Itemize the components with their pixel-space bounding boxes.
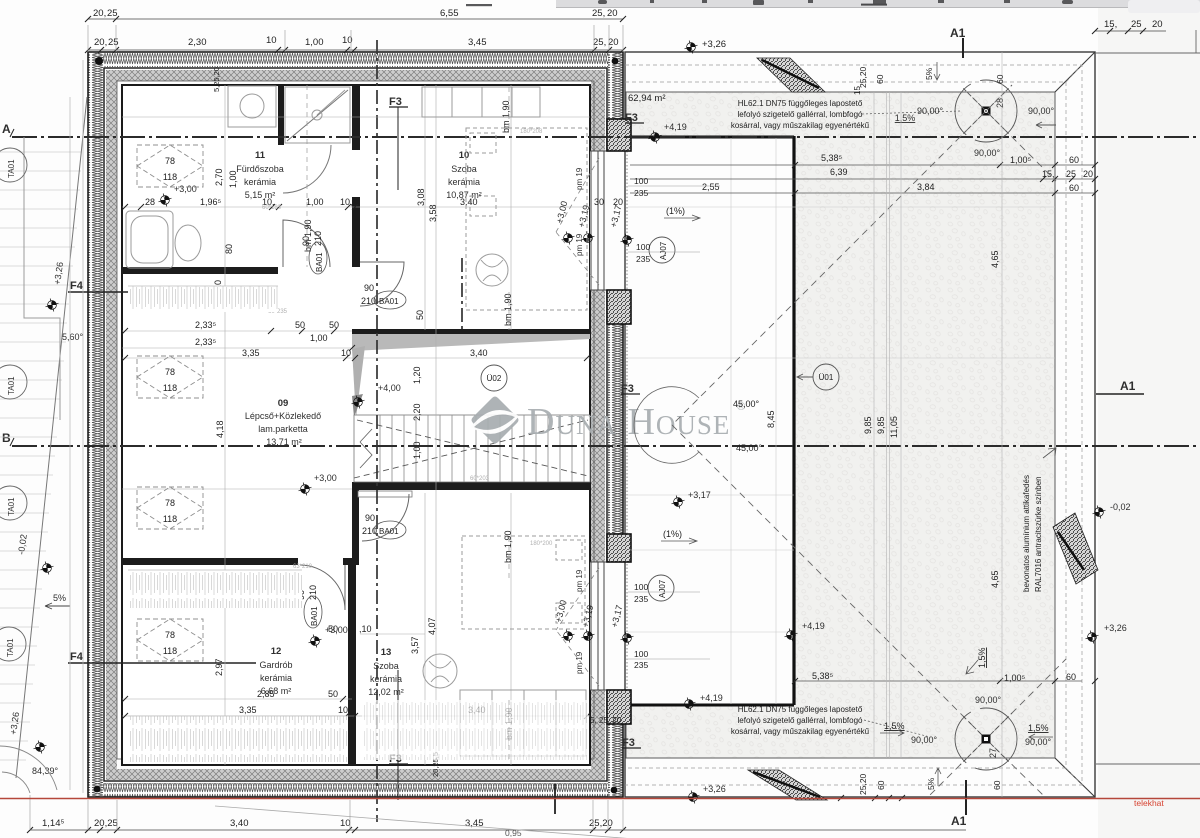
svg-text:2,33⁵: 2,33⁵: [195, 320, 217, 330]
svg-text:10: 10: [459, 150, 470, 161]
svg-text:HL62.1 DN75 függőleges laposte: HL62.1 DN75 függőleges lapostető: [738, 705, 863, 714]
room13 bed dashed: [462, 536, 585, 629]
svg-text:5,38⁵: 5,38⁵: [812, 671, 834, 681]
rotated dim labels: [212, 67, 622, 777]
svg-text:50: 50: [295, 320, 305, 330]
band rotated labels top: [853, 66, 1005, 95]
svg-text:4,18: 4,18: [215, 420, 225, 438]
door D1 bathroom leaf+arc: [283, 220, 330, 267]
svg-text:80: 80: [224, 244, 234, 254]
svg-text:BA01: BA01: [379, 297, 399, 306]
svg-text:235: 235: [636, 254, 650, 264]
wall under stairs W4: [352, 482, 590, 490]
wall W1 lower piece: [352, 197, 360, 262]
svg-text:25: 25: [1066, 169, 1076, 179]
white void rectangle over lower-storey footprint: [624, 136, 794, 706]
svg-text:+3,17: +3,17: [688, 490, 711, 500]
svg-text:1,00: 1,00: [306, 197, 324, 207]
svg-text:180*208: 180*208: [520, 129, 543, 135]
room10 wardrobe: [422, 87, 540, 117]
svg-text:Szoba: Szoba: [373, 661, 399, 671]
svg-text:100: 100: [634, 649, 648, 659]
svg-text:13: 13: [381, 647, 392, 658]
svg-text:118: 118: [163, 514, 177, 524]
svg-text:60: 60: [992, 780, 1002, 790]
faint grid continuation through roof: [628, 138, 1055, 704]
svg-text:Lépcső+Közlekedő: Lépcső+Közlekedő: [245, 411, 321, 421]
svg-text:,10: ,10: [359, 624, 372, 634]
svg-text:60: 60: [995, 74, 1005, 84]
svg-text:100: 100: [634, 582, 648, 592]
neighbour outline: [24, 137, 60, 420]
dashed bm lines: [307, 85, 509, 762]
svg-text:90,00°: 90,00°: [917, 106, 944, 116]
rotated totals mid: [766, 250, 1000, 588]
vertical dashed centreline x=377: [376, 40, 378, 822]
svg-text:telekhat: telekhat: [1134, 798, 1164, 808]
svg-text:A1: A1: [951, 814, 967, 828]
svg-text:50: 50: [328, 689, 338, 699]
sill blocks room 10: [607, 119, 631, 151]
svg-text:20,25: 20,25: [94, 818, 118, 829]
svg-text:180*200: 180*200: [530, 541, 553, 547]
svg-text:30: 30: [594, 197, 604, 207]
+4,19 top flag: [649, 131, 662, 144]
svg-text:3,58: 3,58: [428, 204, 438, 222]
svg-text:9,85: 9,85: [863, 416, 873, 434]
terrace grade lines: [0, 152, 82, 760]
boundary vertical dim lines near wall: [70, 60, 83, 793]
svg-text:2,30: 2,30: [188, 37, 207, 48]
opening room 13: [590, 562, 624, 690]
browser toolbar remnant top: [466, 0, 1200, 13]
svg-text:118: 118: [163, 646, 177, 656]
extension lines down from wall: [30, 795, 623, 830]
svg-text:20: 20: [608, 37, 619, 48]
parapet mitre bottom-right: [1055, 758, 1095, 797]
svg-text:F3: F3: [622, 737, 635, 749]
parapet mitre top-right: [1055, 52, 1095, 92]
tiny size labels: [262, 129, 553, 570]
top drain: [955, 80, 1017, 142]
svg-text:1,00: 1,00: [412, 441, 422, 459]
svg-text:kosárral, vagy műszakilag egye: kosárral, vagy műszakilag egyenértékű: [731, 727, 870, 736]
room13 wardrobe: [460, 690, 586, 756]
svg-text:10: 10: [341, 348, 351, 358]
circles U02: [481, 365, 507, 391]
svg-text:20: 20: [1152, 19, 1163, 30]
svg-text:63*210: 63*210: [293, 564, 313, 570]
svg-text:B: B: [2, 431, 11, 445]
extension ticks from wall top: [88, 25, 623, 52]
room13 plant: [423, 654, 457, 688]
svg-text:A1: A1: [1120, 379, 1136, 393]
svg-text:78: 78: [165, 630, 175, 640]
svg-text:3,45: 3,45: [465, 818, 484, 829]
svg-text:2,55: 2,55: [702, 182, 720, 192]
svg-text:6,55: 6,55: [440, 8, 459, 19]
svg-text:09: 09: [278, 398, 289, 409]
thick black terrace outline: [627, 136, 794, 139]
svg-text:45,00°: 45,00°: [736, 443, 763, 453]
svg-text:+3,26: +3,26: [702, 39, 726, 50]
svg-text:100: 100: [634, 176, 648, 186]
svg-text:6,39: 6,39: [830, 167, 848, 177]
svg-text:TA01: TA01: [7, 376, 16, 395]
svg-text:10: 10: [340, 818, 351, 829]
svg-text:+4,19: +4,19: [802, 621, 825, 631]
svg-text:10,: 10,: [340, 197, 353, 207]
svg-text:10: 10: [266, 35, 277, 46]
svg-text:2,33⁵: 2,33⁵: [195, 337, 217, 347]
svg-text:1,20: 1,20: [412, 366, 422, 384]
svg-text:1,00⁵: 1,00⁵: [1010, 155, 1032, 165]
svg-text:3,35: 3,35: [242, 348, 260, 358]
svg-text:15: 15: [853, 86, 862, 95]
svg-text:25: 25: [108, 37, 119, 48]
parapet dashed offset lines: [625, 65, 1082, 785]
svg-text:25: 25: [107, 8, 118, 19]
svg-text:1,00⁵: 1,00⁵: [1004, 673, 1026, 683]
axis A horizontal: [12, 136, 1196, 138]
svg-text:10: 10: [338, 705, 348, 715]
axis B horizontal: [12, 445, 1196, 447]
(1%) labels: [661, 206, 700, 544]
svg-text:1,5%: 1,5%: [884, 721, 905, 731]
svg-text:1,5%: 1,5%: [895, 113, 916, 123]
svg-text:bevonatos alumínium attikafedé: bevonatos alumínium attikafedés: [1022, 475, 1031, 592]
svg-text:12: 12: [271, 646, 282, 657]
svg-text:3,40: 3,40: [230, 818, 249, 829]
svg-text:13,71 m²: 13,71 m²: [266, 437, 302, 447]
svg-text:Ü02: Ü02: [487, 374, 502, 383]
corner survey dots: [95, 57, 103, 65]
stipple field: [626, 92, 1055, 758]
svg-text:lefolyó szigetelő gallérral, l: lefolyó szigetelő gallérral, lombfogó: [738, 110, 864, 119]
svg-text:4,65: 4,65: [990, 250, 1000, 268]
svg-text:+3,00: +3,00: [325, 625, 348, 635]
HL note top: [731, 99, 870, 130]
svg-text:60: 60: [1066, 672, 1076, 682]
svg-text:TA01: TA01: [6, 638, 15, 657]
svg-text:210: 210: [308, 585, 318, 600]
svg-text:(1%): (1%): [663, 529, 682, 539]
svg-text:90,00°: 90,00°: [1025, 737, 1052, 747]
svg-text:10,87 m²: 10,87 m²: [446, 190, 482, 200]
svg-text:78: 78: [165, 156, 175, 166]
+4,19 labels: [785, 629, 798, 642]
svg-text:3,08: 3,08: [416, 188, 426, 206]
U01 circle + leader: [813, 364, 839, 390]
svg-text:F3: F3: [389, 96, 402, 108]
svg-text:60: 60: [1069, 155, 1079, 165]
svg-text:235: 235: [634, 594, 648, 604]
svg-text:90: 90: [364, 283, 374, 293]
svg-text:28: 28: [145, 197, 155, 207]
row 1 clipped: [88, 18, 623, 20]
svg-text:60*203: 60*203: [470, 476, 490, 482]
svg-text:F4: F4: [70, 651, 84, 663]
svg-text:1,14⁵: 1,14⁵: [42, 818, 64, 829]
svg-text:28: 28: [995, 98, 1005, 108]
svg-text:AJ07: AJ07: [659, 241, 668, 260]
svg-text:2,97: 2,97: [214, 658, 224, 676]
svg-text:4,07: 4,07: [427, 617, 437, 635]
svg-text:Gardrób: Gardrób: [259, 660, 292, 670]
1,5% rotated arrows: [880, 647, 1053, 740]
line between insulation and wall: [104, 68, 607, 781]
svg-text:5,15 m²: 5,15 m²: [245, 190, 276, 200]
svg-text:25,: 25,: [593, 37, 606, 48]
crosshatched wall core: [106, 70, 605, 81]
-0,02 right: [1093, 506, 1106, 519]
svg-text:1,5%: 1,5%: [1028, 723, 1049, 733]
terrace door swing dashes: [556, 158, 599, 686]
svg-text:4,65: 4,65: [990, 570, 1000, 588]
short section line bottom: [554, 784, 556, 814]
svg-text:F3: F3: [621, 383, 634, 395]
insulation dotted face left of void: [626, 137, 628, 704]
45 degree arcs: [634, 387, 699, 425]
svg-text:60*183: 60*183: [262, 205, 282, 211]
wall bath/room10 W1 upper: [352, 85, 360, 150]
top-right area lines: [1095, 30, 1200, 764]
+3,26 bottom centre: [687, 791, 700, 804]
bathtub: [126, 211, 173, 268]
svg-text:lam.parketta: lam.parketta: [258, 424, 308, 434]
interior dim labels row bath y202: [145, 197, 623, 715]
AJ07 circles: [649, 237, 675, 263]
sill blocks room 13: [607, 534, 631, 562]
svg-text:pm 19: pm 19: [575, 167, 584, 190]
insulation ring (zigzag): [88, 53, 623, 67]
svg-text:50: 50: [329, 320, 339, 330]
svg-text:20: 20: [1083, 169, 1093, 179]
TA01 circles: [0, 148, 27, 661]
svg-text:Fürdőszoba: Fürdőszoba: [236, 164, 284, 174]
shower curved screen: [283, 145, 331, 193]
svg-text:+4,19: +4,19: [700, 693, 723, 703]
svg-text:BA01: BA01: [310, 606, 319, 626]
corner arcs: [2, 772, 30, 793]
svg-text:90: 90: [365, 513, 375, 523]
svg-text:78: 78: [165, 498, 175, 508]
wall room12/room13 W6: [348, 558, 356, 765]
svg-text:HL62.1 DN75 függőleges laposte: HL62.1 DN75 függőleges lapostető: [738, 99, 863, 108]
door D4 room12 leaf+arc: [300, 565, 345, 610]
svg-text:5%: 5%: [926, 777, 936, 790]
door D3 room13 leaf+arc: [358, 491, 412, 497]
room10 bed dashed: [466, 128, 587, 310]
svg-text:F3: F3: [625, 112, 638, 124]
svg-text:5,25,20: 5,25,20: [212, 67, 221, 92]
wall inner thin line: [117, 81, 594, 759]
svg-text:Duna House: Duna House: [527, 401, 730, 443]
svg-text:1,00: 1,00: [305, 37, 324, 48]
bathroom south wall W2: [122, 267, 278, 274]
svg-text:1,5%: 1,5%: [977, 647, 987, 668]
svg-text:118: 118: [163, 383, 177, 393]
svg-text:1,96⁵: 1,96⁵: [200, 197, 222, 207]
svg-text:+3,00: +3,00: [314, 473, 337, 483]
washbasin: [175, 225, 201, 261]
svg-text:15,: 15,: [1104, 19, 1117, 30]
svg-text:-0,02: -0,02: [1110, 502, 1131, 512]
svg-text:25,20: 25,20: [858, 773, 868, 795]
svg-text:2,70: 2,70: [214, 168, 224, 186]
svg-text:90: 90: [301, 236, 311, 246]
svg-text:3,57: 3,57: [410, 636, 420, 654]
small ticks on red line: [838, 795, 905, 801]
svg-text:RAL7016 antracitszürke színben: RAL7016 antracitszürke színben: [1034, 476, 1043, 592]
svg-text:+4,19: +4,19: [664, 122, 687, 132]
door D2 room10 leaf+arc: [360, 262, 404, 306]
wall below room10 W3: [352, 329, 590, 337]
svg-text:25,20: 25,20: [589, 818, 613, 829]
parapet outer edge: [625, 52, 1095, 797]
svg-text:3,45: 3,45: [468, 37, 487, 48]
svg-text:60: 60: [876, 780, 886, 790]
F3 labels: [389, 96, 638, 765]
stub between stairs and room12 wall: [352, 482, 359, 565]
svg-text:Ü01: Ü01: [819, 373, 834, 382]
svg-text:25,: 25,: [592, 8, 605, 19]
bottom drain: [955, 708, 1017, 770]
svg-text:lefolyó szigetelő gallérral, l: lefolyó szigetelő gallérral, lombfogó: [738, 716, 864, 725]
svg-text:235: 235: [634, 660, 648, 670]
outer edge line: [88, 52, 623, 797]
svg-text:6,68 m²: 6,68 m²: [261, 686, 292, 696]
svg-text:235: 235: [634, 188, 648, 198]
svg-text:A: A: [2, 122, 11, 136]
svg-text:20,: 20,: [93, 8, 106, 19]
svg-text:78: 78: [165, 367, 175, 377]
HL note bottom: [731, 705, 870, 736]
svg-text:8,45: 8,45: [766, 410, 776, 428]
row 2: [88, 49, 623, 51]
svg-text:50: 50: [415, 310, 425, 320]
grey wedge under W3: [352, 334, 590, 351]
svg-text:pm 19: pm 19: [575, 651, 584, 674]
svg-text:bm 1,90: bm 1,90: [503, 530, 513, 563]
svg-text:20: 20: [607, 8, 618, 19]
svg-text:Szoba: Szoba: [451, 164, 477, 174]
bevonatos rotated note: [1022, 475, 1043, 592]
svg-text:27: 27: [988, 748, 998, 758]
property boundary slant line: [16, 97, 87, 778]
+3,26 right: [1086, 631, 1099, 644]
svg-text:5%: 5%: [53, 593, 66, 603]
svg-text:11: 11: [255, 150, 266, 161]
wall room09/room12 W5: [122, 558, 298, 565]
svg-text:BA01: BA01: [315, 252, 324, 272]
svg-text:kerámia: kerámia: [370, 674, 402, 684]
svg-text:kosárral, vagy műszakilag egye: kosárral, vagy műszakilag egyenértékű: [731, 121, 870, 130]
svg-text:F4: F4: [70, 280, 84, 292]
svg-text:90,00°: 90,00°: [911, 735, 938, 745]
svg-text:pm 19: pm 19: [575, 233, 584, 256]
svg-text:90,00°: 90,00°: [975, 695, 1002, 705]
logo diamond: [472, 397, 519, 444]
svg-text:25: 25: [1131, 19, 1142, 30]
wall W1c between doors: [352, 262, 360, 267]
band rotated labels bottom: [858, 773, 1002, 795]
svg-text:9,85: 9,85: [876, 416, 886, 434]
svg-text:5,60°: 5,60°: [62, 332, 84, 342]
roof dim rows top: [702, 153, 1093, 193]
svg-text:A1: A1: [950, 26, 966, 40]
svg-text:3,84: 3,84: [917, 182, 935, 192]
svg-text:1,00: 1,00: [310, 333, 328, 343]
svg-text:+3,26: +3,26: [703, 784, 726, 794]
svg-text:2,20: 2,20: [412, 403, 422, 421]
svg-text:pm 19: pm 19: [575, 569, 584, 592]
vanity top wall: [228, 86, 276, 127]
shower tray: [285, 87, 350, 143]
svg-text:210: 210: [313, 231, 323, 246]
svg-text:90,00°: 90,00°: [974, 148, 1001, 158]
svg-text:kerámia: kerámia: [260, 673, 292, 683]
svg-text:TA01: TA01: [7, 159, 16, 178]
svg-text:+3,26: +3,26: [1104, 623, 1127, 633]
svg-text:AJ07: AJ07: [658, 579, 667, 598]
svg-text:TA01: TA01: [7, 497, 16, 516]
svg-text:118: 118: [163, 172, 177, 182]
5,38 line bottom: [794, 680, 1082, 682]
shower divider: [278, 85, 284, 145]
room10 plant: [476, 254, 508, 286]
inner face: [122, 85, 590, 765]
+3,17 flag: [672, 496, 685, 509]
svg-text:60: 60: [1069, 183, 1079, 193]
svg-text:100: 100: [636, 242, 650, 252]
svg-text:11,05: 11,05: [889, 416, 899, 438]
svg-text:5, 25, 20: 5, 25, 20: [590, 716, 622, 725]
svg-text:60: 60: [875, 74, 885, 84]
svg-text:62,94 m²: 62,94 m²: [628, 93, 666, 104]
faint diagonal bottom left: [215, 806, 660, 838]
svg-text:3,35: 3,35: [239, 705, 257, 715]
svg-text:5%: 5%: [924, 67, 934, 80]
svg-text:+3,00: +3,00: [174, 184, 197, 194]
100/235 stacked labels: [634, 176, 650, 670]
svg-text:45,00°: 45,00°: [733, 399, 760, 409]
section hatch blocks: [748, 58, 1098, 800]
opening room 10: [590, 151, 624, 290]
+3,26 top flag: [685, 41, 698, 54]
svg-text:3,40: 3,40: [470, 348, 488, 358]
svg-text:5,38⁵: 5,38⁵: [821, 153, 843, 163]
svg-text:BA01: BA01: [379, 527, 399, 536]
svg-text:(1%): (1%): [666, 206, 685, 216]
svg-text:25,20: 25,20: [858, 66, 868, 88]
svg-text:+4,00: +4,00: [378, 383, 401, 393]
svg-text:20,: 20,: [94, 37, 107, 48]
svg-text:kerámia: kerámia: [448, 177, 480, 187]
valley dashed V from top drain to bottom drain: [672, 92, 1066, 797]
svg-text:90,00°: 90,00°: [1028, 106, 1055, 116]
svg-text:kerámia: kerámia: [244, 177, 276, 187]
